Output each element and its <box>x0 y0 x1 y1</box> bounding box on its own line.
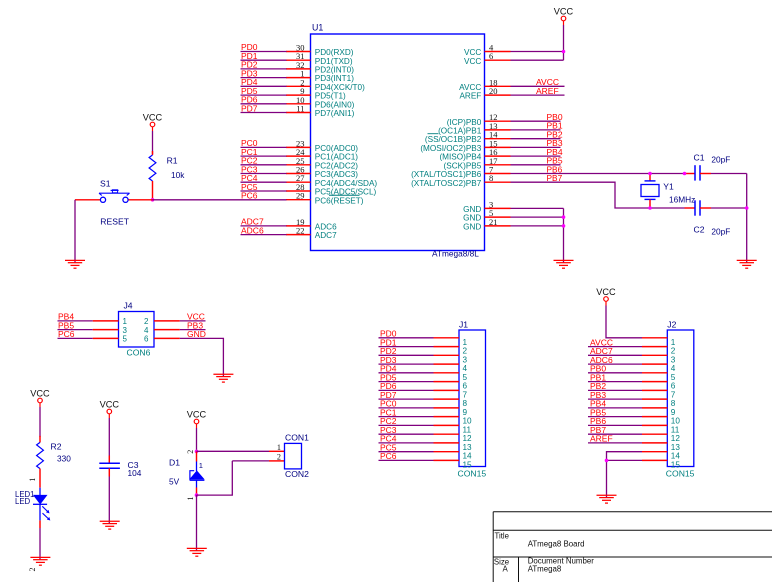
C2 reference label <box>694 225 705 235</box>
J1 pin 14 net PC5 <box>379 443 473 461</box>
ground (J2) <box>597 495 617 503</box>
wire net PB4 to J4 <box>58 312 93 322</box>
svg-text:PC6: PC6 <box>241 191 258 201</box>
wire D1 cathode to CON2 pin 1 <box>197 450 285 452</box>
svg-text:11: 11 <box>296 104 304 114</box>
svg-text:CON2: CON2 <box>285 469 309 479</box>
wire net PB1 <box>511 121 563 131</box>
svg-text:J4: J4 <box>124 301 133 311</box>
U1 pin 16 (MISO)PB4 (right) <box>439 147 510 162</box>
J2 reference label <box>667 320 676 330</box>
wire D1 anode to CON2 pin 2 <box>197 461 285 495</box>
svg-text:A: A <box>503 565 509 574</box>
svg-text:PD2(INT0): PD2(INT0) <box>315 66 354 75</box>
svg-text:PD0(RXD): PD0(RXD) <box>315 48 354 57</box>
title block text A <box>503 565 509 574</box>
wire net PB5 <box>511 156 563 166</box>
svg-text:2: 2 <box>186 450 195 454</box>
J2 pin 3 <box>642 355 676 364</box>
wire VCC to R2 <box>39 407 41 437</box>
J4 value label CON6 <box>127 347 151 357</box>
ground (D1) <box>187 548 207 556</box>
node junction J2 pin15 gnd <box>605 459 609 463</box>
wire net PB6 (XTAL1) to crystal <box>511 164 685 174</box>
svg-text:C2: C2 <box>694 225 705 235</box>
C3 reference label <box>128 460 139 470</box>
svg-text:AREF: AREF <box>536 86 559 96</box>
title block frame <box>493 512 772 582</box>
wire net PB1 to J2 pin 6 <box>588 372 642 382</box>
svg-text:14: 14 <box>463 452 473 461</box>
svg-text:4: 4 <box>463 364 468 373</box>
U1 pin 26 PC3(ADC3) (left) <box>286 165 358 180</box>
power symbol VCC (C3 branch) <box>100 400 120 419</box>
U1 pin 8 (XTAL/TOSC2)PB7 (right) <box>411 173 510 188</box>
svg-text:20: 20 <box>489 86 498 96</box>
svg-text:PD4(XCK/T0): PD4(XCK/T0) <box>315 83 365 92</box>
wire net ADC7 to U1 <box>241 217 287 227</box>
svg-text:6: 6 <box>671 382 676 391</box>
svg-text:ATmega8/8L: ATmega8/8L <box>432 249 479 259</box>
J2 pin 14 <box>642 452 680 461</box>
U1 pin 21 GND (right) <box>463 217 510 232</box>
U1 pin 13 (OC1A)PB1 (right) <box>428 121 511 136</box>
U1 pin 6 VCC (right) <box>464 51 510 66</box>
S1 value label RESET <box>100 217 129 227</box>
wire net AREF <box>511 86 565 96</box>
wire LED to ground <box>39 520 41 559</box>
svg-text:Y1: Y1 <box>663 181 674 191</box>
J1 pin 11 net PC2 <box>379 416 472 434</box>
svg-text:VCC: VCC <box>187 410 207 420</box>
svg-text:1: 1 <box>277 443 281 452</box>
J1 pin 13 net PC4 <box>379 434 473 452</box>
wire net PB4 to J2 pin 9 <box>588 399 642 409</box>
wire C1/C2 right side to ground <box>711 174 747 263</box>
wire net VCC at J4 pin2 <box>180 312 206 322</box>
U1 reference designator label <box>312 23 323 33</box>
wire net PB6 to J2 pin 11 <box>588 416 642 426</box>
svg-text:(XTAL/TOSC2)PB7: (XTAL/TOSC2)PB7 <box>411 179 482 188</box>
svg-text:CON15: CON15 <box>666 468 695 478</box>
svg-text:(XTAL/TOSC1)PB6: (XTAL/TOSC1)PB6 <box>411 170 482 179</box>
J2 pin 8 <box>642 399 676 408</box>
title block text Document Number <box>528 557 595 566</box>
wire net PD7 to U1 <box>241 103 287 113</box>
J1 pin 10 net PC1 <box>379 407 473 425</box>
U1 pin 12 (ICP)PB0 (right) <box>447 112 511 127</box>
J4 pin 2 <box>144 317 180 326</box>
wire net PD2 to U1 <box>241 60 287 70</box>
node junction C1 left <box>683 172 687 176</box>
node junction R1/S1/PC6 net <box>151 198 155 202</box>
svg-text:AREF: AREF <box>459 92 481 101</box>
R1 reference label <box>167 156 178 166</box>
svg-text:(SCK)PB5: (SCK)PB5 <box>444 161 482 170</box>
svg-text:(SS/OC1B)PB2: (SS/OC1B)PB2 <box>425 135 482 144</box>
switch S1 pushbutton <box>75 190 153 203</box>
wire net PC0 to U1 <box>241 138 287 148</box>
S1 reference label <box>100 178 111 188</box>
ground (crystal) <box>737 260 757 268</box>
LED LED1 <box>33 488 50 521</box>
CON2 pin 2 number <box>277 452 281 461</box>
U1 pin 7 (XTAL/TOSC1)PB6 (right) <box>411 165 510 180</box>
svg-text:6: 6 <box>489 51 493 61</box>
connector CON2 body <box>285 443 302 469</box>
svg-text:29: 29 <box>296 191 305 201</box>
U1 pin 23 PC0(ADC0) (left) <box>286 138 358 153</box>
wire net PC5 to U1 <box>241 182 287 192</box>
wire net PB3 <box>511 138 563 148</box>
svg-text:RESET: RESET <box>100 217 129 227</box>
svg-text:8: 8 <box>489 173 493 183</box>
wire net PC3 to U1 <box>241 164 287 174</box>
LED1 pin 1 number <box>28 478 37 482</box>
Y1 value label 16MHz <box>669 194 695 204</box>
svg-text:PC4(ADC4/SDA): PC4(ADC4/SDA) <box>315 179 378 188</box>
svg-text:10: 10 <box>671 417 681 426</box>
wire net PD1 to U1 <box>241 51 287 61</box>
svg-text:14: 14 <box>671 452 681 461</box>
U1 pin 25 PC2(ADC2) (left) <box>286 156 358 171</box>
node junction GND pin21 <box>562 224 566 228</box>
U1 pin 30 PD0(RXD) (left) <box>286 43 354 58</box>
D1 value label 5V <box>169 477 180 487</box>
wire net PB3 to J2 pin 8 <box>588 390 642 400</box>
U1 pin 29 PC6(RESET) (left) <box>286 191 364 206</box>
J2 pin 2 <box>642 347 676 356</box>
J1 pin 15 net PC6 <box>379 451 473 469</box>
U1 pin 20 AREF (right) <box>459 86 510 101</box>
CON2 pin 1 number <box>277 443 281 452</box>
wire net PD0 to U1 <box>241 42 287 52</box>
svg-text:4: 4 <box>144 326 149 335</box>
svg-text:S1: S1 <box>100 178 111 188</box>
svg-text:5: 5 <box>671 373 676 382</box>
wire net PB0 to J2 pin 5 <box>588 364 642 374</box>
svg-text:1: 1 <box>28 478 37 482</box>
svg-text:5: 5 <box>463 373 468 382</box>
J1 pin 3 net PD2 <box>379 346 468 364</box>
svg-text:PC3(ADC3): PC3(ADC3) <box>315 170 358 179</box>
ground (LED) <box>30 557 50 565</box>
wire net AREF to J2 pin 13 <box>588 434 642 444</box>
svg-text:(OC1A)PB1: (OC1A)PB1 <box>438 127 482 136</box>
svg-text:PD5(T1): PD5(T1) <box>315 92 346 101</box>
ground (U1 GND) <box>554 260 574 268</box>
svg-text:1: 1 <box>123 317 128 326</box>
wire net AVCC <box>511 77 565 87</box>
title block text Title <box>495 531 509 540</box>
R2 value label 330 <box>57 453 71 463</box>
J2 pin 9 <box>642 408 676 417</box>
J1 value label CON15 <box>458 468 487 478</box>
node junction VCC pin4 <box>562 50 566 54</box>
svg-text:VCC: VCC <box>30 389 50 399</box>
J1 pin 5 net PD4 <box>379 364 468 382</box>
svg-text:20pF: 20pF <box>711 226 730 236</box>
svg-text:8: 8 <box>671 399 676 408</box>
U1 value label ATmega8/8L <box>432 249 479 259</box>
wire net ADC7 to J2 pin 3 <box>588 346 642 356</box>
svg-text:PC0(ADC0): PC0(ADC0) <box>315 144 358 153</box>
LED1 pin 2 number <box>28 568 37 572</box>
C2 value label 20pF <box>711 226 730 236</box>
wire net GND at J4 pin6 to ground <box>180 329 224 376</box>
title block text ATmega8 Board <box>528 539 585 548</box>
svg-text:VCC: VCC <box>143 113 163 123</box>
wire D1 anode to ground <box>196 495 198 550</box>
U1 pin 28 PC5(ADC5/SCL) (left) <box>286 182 376 197</box>
power symbol VCC (J2) <box>596 287 616 306</box>
D1 reference label <box>169 458 180 468</box>
svg-text:8: 8 <box>463 399 468 408</box>
svg-text:D1: D1 <box>169 458 180 468</box>
power symbol VCC (top, U1 supply) <box>554 7 574 26</box>
J2 value label CON15 <box>666 468 695 478</box>
svg-text:PC1(ADC1): PC1(ADC1) <box>315 153 358 162</box>
svg-text:PD7: PD7 <box>241 103 258 113</box>
wire net PC2 to U1 <box>241 156 287 166</box>
U1 pin 5 GND (right) <box>463 208 510 223</box>
svg-text:(MOSI/OC2)PB3: (MOSI/OC2)PB3 <box>420 144 481 153</box>
R2 reference label <box>51 441 62 451</box>
U1 pin 15 (MOSI/OC2)PB3 (right) <box>420 138 510 153</box>
svg-text:ATmega8 Board: ATmega8 Board <box>528 539 585 548</box>
svg-text:GND: GND <box>463 214 481 223</box>
J1 pin 4 net PD3 <box>379 355 468 373</box>
wire net PB7 (XTAL2) to crystal <box>511 173 685 208</box>
wire VCC to J2 pin 1 <box>606 306 642 338</box>
wire net PB4 <box>511 147 563 157</box>
svg-text:PD1(TXD): PD1(TXD) <box>315 57 353 66</box>
wire net PD4 to U1 <box>241 77 287 87</box>
J2 pin 7 <box>642 390 676 399</box>
svg-text:Title: Title <box>495 531 509 540</box>
svg-text:ADC6: ADC6 <box>241 225 264 235</box>
U1 pin 24 PC1(ADC1) (left) <box>286 147 358 162</box>
svg-text:6: 6 <box>144 335 149 344</box>
CON1 reference label <box>285 433 309 443</box>
connector J2 CON15 body <box>667 330 694 467</box>
svg-text:PC6(RESET): PC6(RESET) <box>315 196 364 205</box>
svg-text:CON6: CON6 <box>127 347 151 357</box>
wire net PB0 <box>511 112 563 122</box>
ground (reset switch) <box>65 260 85 268</box>
J1 pin 7 net PD6 <box>379 381 468 399</box>
U1 pin 31 PD1(TXD) (left) <box>286 51 353 66</box>
C1 reference label <box>694 152 705 162</box>
ground (C3) <box>100 521 120 529</box>
svg-text:R2: R2 <box>51 441 62 451</box>
LED1 value label LED <box>15 497 31 506</box>
node junction Y1 top / PB6 net <box>648 172 652 176</box>
U1 pin 4 VCC (right) <box>464 43 510 58</box>
CON2 value label <box>285 469 309 479</box>
D1 pin 1 number <box>186 497 195 501</box>
svg-text:16MHz: 16MHz <box>669 194 695 204</box>
svg-text:GND: GND <box>463 205 481 214</box>
U1 pin 9 PD5(T1) (left) <box>286 86 346 101</box>
wire S1 to ground <box>74 200 76 263</box>
svg-text:(MISO)PB4: (MISO)PB4 <box>439 153 481 162</box>
svg-text:J1: J1 <box>459 320 468 330</box>
svg-text:PD3(INT1): PD3(INT1) <box>315 74 354 83</box>
svg-text:VCC: VCC <box>464 48 481 57</box>
J2 pin 6 <box>642 382 676 391</box>
svg-text:ADC7: ADC7 <box>315 231 337 240</box>
svg-text:11: 11 <box>463 425 472 434</box>
J4 pin 5 <box>93 335 128 344</box>
J2 pin 13 <box>642 443 680 452</box>
svg-text:(ICP)PB0: (ICP)PB0 <box>447 118 482 127</box>
svg-text:ATmega8: ATmega8 <box>528 564 562 573</box>
svg-text:2: 2 <box>277 452 281 461</box>
wire net PB2 to J2 pin 7 <box>588 381 642 391</box>
svg-text:PC6: PC6 <box>58 329 75 339</box>
svg-text:J2: J2 <box>667 320 676 330</box>
wire net PC4 to U1 <box>241 173 287 183</box>
J2 pin 4 <box>642 364 676 373</box>
J4 pin 3 <box>93 326 128 335</box>
svg-text:7: 7 <box>463 390 468 399</box>
svg-text:15: 15 <box>463 460 473 469</box>
svg-text:AREF: AREF <box>590 434 613 444</box>
svg-text:104: 104 <box>128 468 142 478</box>
U1 pin 32 PD2(INT0) (left) <box>286 60 354 75</box>
D1 pin 2 number <box>186 450 195 454</box>
svg-text:11: 11 <box>671 425 680 434</box>
svg-text:C1: C1 <box>694 152 705 162</box>
svg-text:13: 13 <box>463 443 473 452</box>
svg-text:PC2(ADC2): PC2(ADC2) <box>315 161 358 170</box>
svg-text:5V: 5V <box>169 477 180 487</box>
J1 reference label <box>459 320 468 330</box>
svg-text:GND: GND <box>187 329 206 339</box>
svg-text:10k: 10k <box>171 170 185 180</box>
svg-text:12: 12 <box>671 434 681 443</box>
J2 pin 12 <box>642 434 680 443</box>
J2 pin 15 <box>642 460 680 469</box>
Y1 reference label <box>663 181 674 191</box>
svg-text:GND: GND <box>463 223 481 232</box>
svg-text:LED: LED <box>15 497 31 506</box>
svg-text:VCC: VCC <box>100 400 120 410</box>
svg-text:3: 3 <box>463 355 468 364</box>
node junction crystal caps right <box>745 206 749 210</box>
svg-text:21: 21 <box>489 217 498 227</box>
J1 pin 1 net PD0 <box>379 329 468 347</box>
U1 pin 22 ADC7 (left) <box>286 226 337 241</box>
svg-text:PB7: PB7 <box>547 173 563 183</box>
svg-text:4: 4 <box>671 364 676 373</box>
J2 pin 1 <box>642 338 676 347</box>
wire net PD5 to U1 <box>241 86 287 96</box>
svg-text:VCC: VCC <box>464 57 481 66</box>
wire net PB2 <box>511 130 563 140</box>
node junction Y1 bottom / PB7 net <box>648 206 652 210</box>
U1 pin 11 PD7(ANI1) (left) <box>286 104 355 119</box>
svg-text:9: 9 <box>463 408 468 417</box>
wire net PC1 to U1 <box>241 147 287 157</box>
title block text ATmega8 <box>528 564 562 573</box>
wire net PB5 to J2 pin 10 <box>588 407 642 417</box>
wire net AVCC to J2 pin 2 <box>588 337 642 347</box>
svg-text:330: 330 <box>57 453 71 463</box>
wire net PB7 to J2 pin 12 <box>588 425 642 435</box>
wire net ADC6 to U1 <box>241 225 287 235</box>
U1 pin 27 PC4(ADC4/SDA) (left) <box>286 173 377 188</box>
svg-text:1: 1 <box>186 497 195 501</box>
capacitor C2 <box>685 200 712 215</box>
svg-text:7: 7 <box>671 390 676 399</box>
svg-text:15: 15 <box>671 460 681 469</box>
U1 pin 10 PD6(AIN0) (left) <box>286 95 355 110</box>
capacitor C1 <box>685 165 712 180</box>
IC U1 ATmega8 body <box>311 34 485 251</box>
svg-text:PD6(AIN0): PD6(AIN0) <box>315 100 355 109</box>
C3 value label 104 <box>128 468 142 478</box>
wire net PC6 to J4 <box>58 329 93 339</box>
ground (J4) <box>213 374 233 382</box>
power symbol VCC (above R1) <box>143 113 163 132</box>
svg-text:5: 5 <box>123 335 128 344</box>
svg-text:CON1: CON1 <box>285 433 309 443</box>
wire VCC to D1 node <box>196 428 198 451</box>
svg-text:R1: R1 <box>167 156 178 166</box>
U1 pin 17 (SCK)PB5 (right) <box>444 156 511 171</box>
node junction D1 cathode / CON2 pin1 <box>195 450 199 454</box>
wire VCC vertical to U1 pins 4,6 <box>511 25 564 60</box>
svg-text:2: 2 <box>463 347 468 356</box>
svg-text:U1: U1 <box>312 23 323 33</box>
U1 pin 18 AVCC (right) <box>459 77 510 92</box>
J1 pin 12 net PC3 <box>379 425 473 443</box>
crystal Y1 <box>641 174 659 209</box>
J2 pin 5 <box>642 373 676 382</box>
connector J1 CON15 body <box>459 330 486 467</box>
svg-text:13: 13 <box>671 443 681 452</box>
J2 pin 11 <box>642 425 680 434</box>
diode D1 zener <box>190 451 205 495</box>
U1 pin 1 PD3(INT1) (left) <box>286 69 354 84</box>
svg-text:2: 2 <box>28 568 37 572</box>
svg-text:1: 1 <box>671 338 676 347</box>
svg-text:VCC: VCC <box>554 7 574 17</box>
R1 value label 10k <box>171 170 185 180</box>
U1 pin 14 (SS/OC1B)PB2 (right) <box>425 130 511 145</box>
wire net PD6 to U1 <box>241 95 287 105</box>
J1 pin 6 net PD5 <box>379 372 468 390</box>
svg-text:VCC: VCC <box>596 287 616 297</box>
connector J4 CON6 body <box>119 312 155 348</box>
svg-text:1: 1 <box>199 461 203 470</box>
node junction D1 anode / CON2 pin2 <box>195 493 199 497</box>
J4 reference label <box>124 301 133 311</box>
svg-text:22: 22 <box>296 226 305 236</box>
wire net PB3 at J4 pin4 <box>180 320 206 330</box>
wire C3 to ground <box>108 477 110 524</box>
U1 pin 3 GND (right) <box>463 199 510 214</box>
svg-text:PC6: PC6 <box>380 451 397 461</box>
J4 pin 6 <box>144 335 180 344</box>
svg-text:AVCC: AVCC <box>459 83 481 92</box>
wire net PB5 to J4 <box>58 320 93 330</box>
wire net ADC6 to J2 pin 4 <box>588 355 642 365</box>
wire VCC to R1 <box>152 131 154 154</box>
U1 pin 19 ADC6 (left) <box>286 217 337 232</box>
